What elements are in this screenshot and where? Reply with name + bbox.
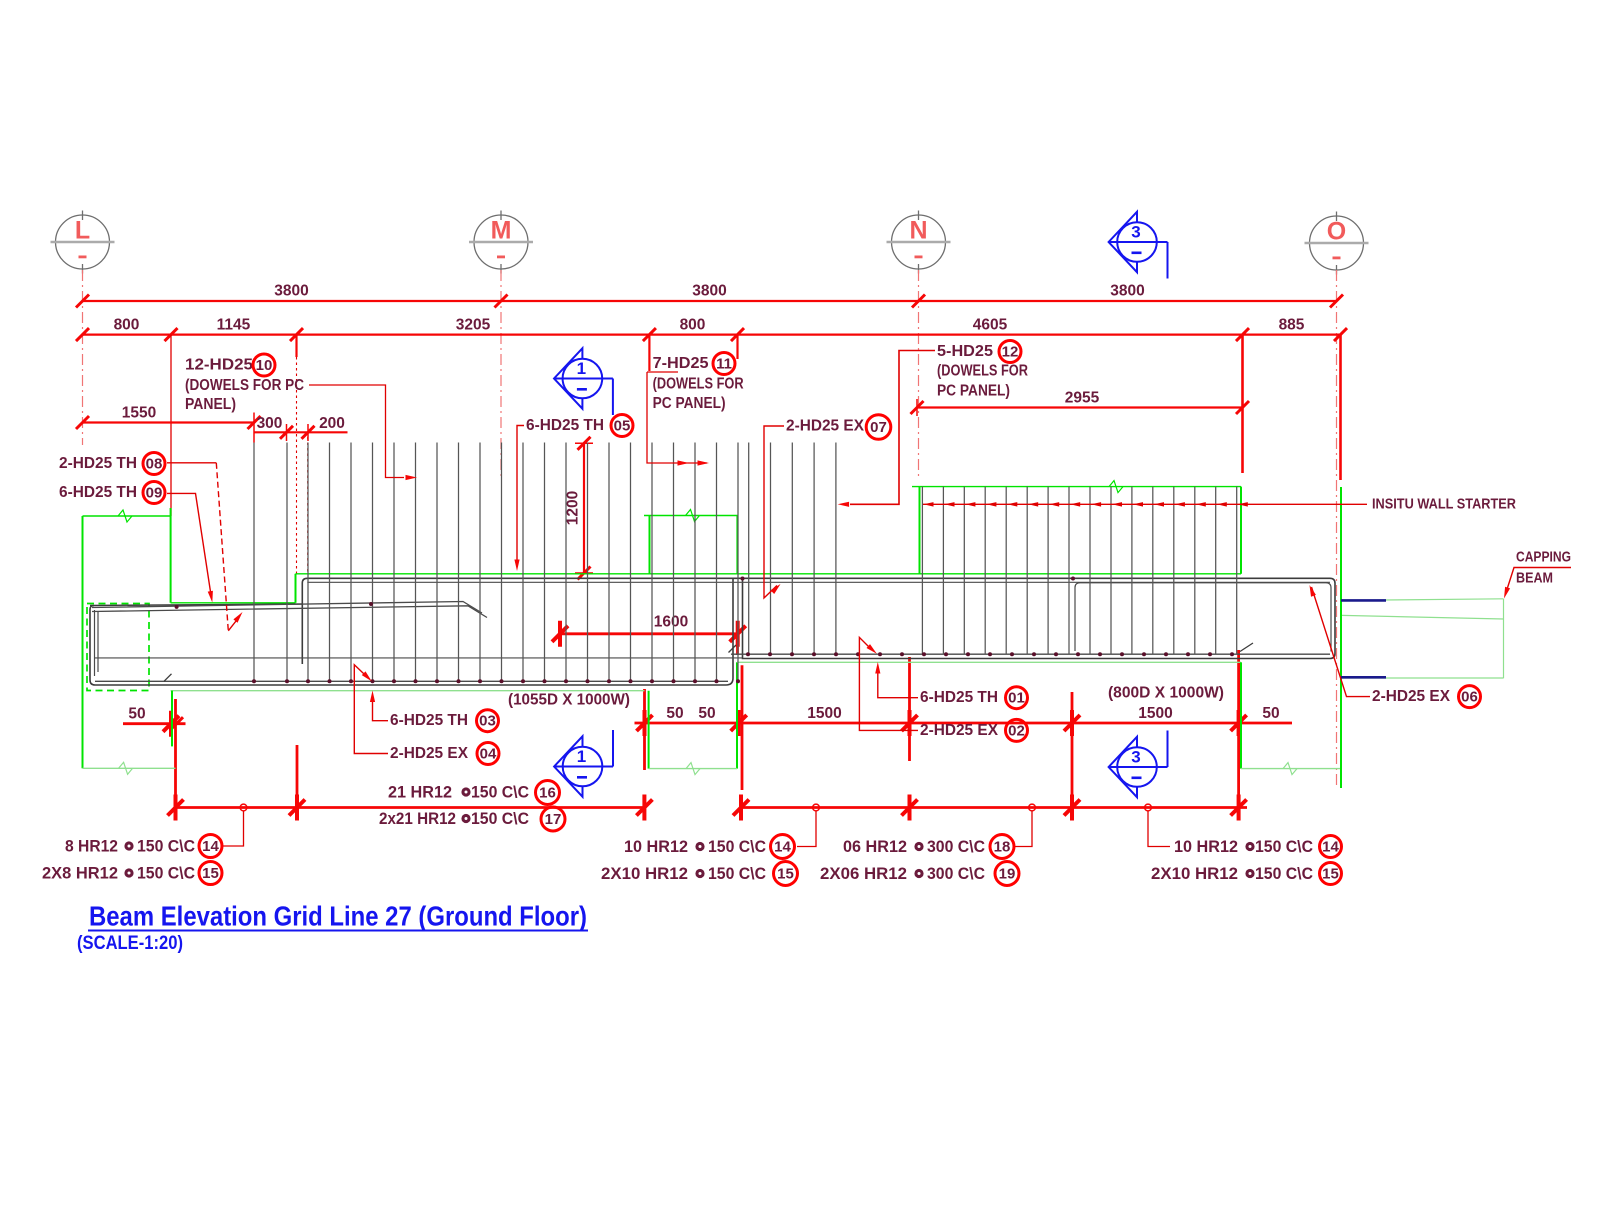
svg-text:2-HD25 EX: 2-HD25 EX — [920, 722, 999, 739]
wall face mid-left — [649, 516, 651, 574]
dowel bars group C (insitu wall starters) — [922, 487, 1236, 655]
extension x=644.5 — [643, 689, 646, 770]
dimension row B: 800/1145/3205/800/4605/885 — [83, 334, 1341, 336]
capping beam second line — [1342, 615, 1504, 619]
leader label 08 (2-HD25 TH) — [167, 462, 216, 464]
svg-text:10 HR12: 10 HR12 — [624, 837, 688, 856]
svg-text:8 HR12: 8 HR12 — [65, 837, 118, 856]
svg-text:07: 07 — [870, 419, 887, 436]
svg-text:150 C\C: 150 C\C — [137, 837, 195, 856]
svg-text:17: 17 — [545, 811, 562, 828]
svg-text:2X10 HR12: 2X10 HR12 — [1151, 864, 1238, 883]
svg-text:01: 01 — [1008, 690, 1025, 707]
inner cage right end — [1075, 583, 1331, 652]
grid line M centreline — [500, 270, 502, 479]
lower mid wall face a — [648, 691, 650, 769]
svg-text:300 C\C: 300 C\C — [927, 837, 985, 856]
extension x=1072 — [1071, 692, 1074, 808]
extension x=1238.6 — [1237, 650, 1240, 808]
wall face right-right — [1240, 487, 1242, 574]
extension line at x=649 — [648, 335, 650, 371]
lower-left wall face continuation — [82, 691, 84, 769]
svg-text:09: 09 — [146, 485, 163, 502]
svg-text:(SCALE-1:20): (SCALE-1:20) — [77, 933, 183, 954]
svg-text:3800: 3800 — [274, 283, 308, 300]
svg-text:3800: 3800 — [692, 283, 726, 300]
leader label 10 (12-HD25 dowels) — [309, 385, 404, 478]
svg-text:12-HD25: 12-HD25 — [185, 357, 253, 374]
dimension row F: 50 50 / 1500 / 1500 / 50 — [635, 722, 1293, 725]
svg-text:3205: 3205 — [456, 317, 491, 334]
section marker 3 at (1137,242) — [1109, 212, 1137, 272]
svg-text:1: 1 — [577, 359, 586, 378]
capping beam rebar navy bottom — [1341, 676, 1386, 679]
svg-text:15: 15 — [1322, 866, 1339, 883]
svg-text:2-HD25 TH: 2-HD25 TH — [59, 455, 137, 472]
svg-text:5-HD25: 5-HD25 — [937, 343, 993, 360]
leader label 02 (2-HD25 EX right) — [859, 637, 918, 730]
svg-text:2x21 HR12: 2x21 HR12 — [379, 809, 456, 828]
through bar at right-beam soffit level — [95, 657, 742, 659]
svg-text:15: 15 — [202, 865, 219, 882]
capping beam rebar navy top — [1341, 599, 1386, 602]
svg-text:19: 19 — [999, 866, 1016, 883]
leader from row G to label 14/15 left — [222, 811, 244, 846]
svg-text:(DOWELS FOR PC: (DOWELS FOR PC — [185, 377, 304, 394]
wall cut line left — [83, 515, 171, 517]
svg-text:05: 05 — [614, 418, 631, 435]
svg-text:3800: 3800 — [1110, 283, 1144, 300]
extension line at x=1340.5 — [1339, 335, 1342, 480]
top rebar second line — [307, 581, 1330, 583]
lower right wall face — [1240, 662, 1242, 768]
beam outline left segment (1055D) — [90, 579, 733, 686]
svg-text:06: 06 — [1461, 689, 1478, 706]
leader capping beam — [1506, 568, 1572, 595]
svg-text:1550: 1550 — [122, 405, 156, 422]
rebar break tick right — [1240, 643, 1253, 652]
wall cut line right — [912, 486, 1241, 488]
svg-text:10 HR12: 10 HR12 — [1174, 837, 1238, 856]
svg-text:50: 50 — [666, 705, 683, 722]
rebar break tick left — [164, 674, 172, 682]
svg-text:3: 3 — [1131, 748, 1140, 767]
svg-text:(1055D X 1000W): (1055D X 1000W) — [508, 692, 630, 709]
capping beam bottom line — [1342, 677, 1504, 679]
insitu wall starter arrow line — [923, 503, 1367, 505]
svg-text:16: 16 — [539, 785, 556, 802]
wall cut line mid — [644, 515, 738, 517]
svg-text:6-HD25 TH: 6-HD25 TH — [920, 689, 998, 706]
extension line at x=1242.5 — [1241, 335, 1244, 473]
leader label 09 (6-HD25 TH) — [167, 493, 211, 597]
svg-text:7-HD25: 7-HD25 — [653, 355, 709, 372]
svg-text:(DOWELS FOR: (DOWELS FOR — [937, 363, 1028, 380]
rebar break tick mid — [729, 645, 737, 653]
svg-text:N: N — [909, 217, 927, 245]
svg-text:O: O — [1327, 218, 1346, 246]
lower right wall cut — [1241, 768, 1340, 770]
svg-text:150 C\C: 150 C\C — [471, 809, 529, 828]
lower mid wall cut — [649, 768, 737, 770]
grid bubble M — [474, 215, 528, 269]
svg-text:(800D X 1000W): (800D X 1000W) — [1108, 685, 1224, 702]
leader label 01 (6-HD25 TH right) — [878, 668, 918, 698]
svg-text:CAPPING: CAPPING — [1516, 549, 1571, 566]
dimension row G left: 21 HR12 stirrup span — [176, 806, 645, 809]
svg-text:BEAM: BEAM — [1516, 570, 1553, 587]
beam outline step and top edge + right end — [302, 578, 1335, 664]
section marker 3 at (1137,767) — [1109, 737, 1137, 797]
svg-text:2-HD25 EX: 2-HD25 EX — [390, 745, 469, 762]
svg-text:14: 14 — [1322, 839, 1339, 856]
lower-left wall: bottom slab line — [171, 690, 645, 692]
leader label 11 (7-HD25 dowels) — [647, 372, 707, 463]
dowel bars group B (7-HD25 zone) — [749, 443, 836, 655]
section marker 1 at (582.4,378.5) — [554, 348, 582, 408]
svg-text:800: 800 — [680, 317, 706, 334]
wall face right-left — [919, 487, 921, 574]
svg-text:PC PANEL): PC PANEL) — [653, 395, 726, 412]
extension x=742 — [741, 665, 744, 790]
grid line O centreline — [1336, 270, 1338, 786]
svg-text:06 HR12: 06 HR12 — [843, 837, 907, 856]
svg-text:150 C\C: 150 C\C — [1255, 837, 1313, 856]
svg-text:2X8 HR12: 2X8 HR12 — [42, 864, 118, 883]
wall face far right — [1340, 487, 1342, 788]
svg-text:2X10 HR12: 2X10 HR12 — [601, 864, 688, 883]
grid bubble O — [1310, 216, 1364, 270]
svg-text:M: M — [491, 217, 512, 245]
extension line at x=171 — [170, 335, 172, 516]
svg-text:1: 1 — [577, 747, 586, 766]
dimension 2955 — [917, 406, 1243, 408]
extension below 1600 tick — [736, 634, 739, 655]
svg-text:04: 04 — [480, 746, 497, 763]
beam outline top left edge — [90, 604, 302, 606]
lower wall cut line — [83, 767, 176, 769]
wall face left outer — [82, 516, 84, 691]
svg-text:300: 300 — [257, 415, 283, 432]
left end hook leg b — [97, 612, 99, 672]
extension x=175.5 — [174, 699, 177, 808]
leader label 05 (6-HD25 TH) — [517, 426, 524, 566]
svg-text:50: 50 — [128, 706, 145, 723]
leader from row G to label 14/15 mid — [797, 811, 816, 847]
leader label 07 (2-HD25 EX) — [764, 426, 784, 598]
lower wall inner face — [171, 691, 173, 747]
leader from row G to label 18/19 — [1014, 811, 1032, 847]
svg-text:1500: 1500 — [1138, 705, 1172, 722]
svg-text:14: 14 — [774, 839, 791, 856]
extension line at x=737.5 — [736, 335, 738, 359]
svg-text:02: 02 — [1008, 722, 1025, 739]
stirrup spacer dots right beam — [741, 577, 1235, 657]
svg-text:PC PANEL): PC PANEL) — [937, 383, 1010, 400]
svg-text:12: 12 — [1002, 344, 1019, 361]
lower mid wall face b — [736, 662, 738, 768]
svg-text:PANEL): PANEL) — [185, 396, 236, 413]
svg-text:11: 11 — [716, 356, 732, 373]
precast panel dashed outline — [87, 604, 149, 691]
svg-text:15: 15 — [777, 866, 794, 883]
svg-text:2955: 2955 — [1065, 390, 1100, 407]
svg-text:6-HD25 TH: 6-HD25 TH — [59, 484, 137, 501]
sloping top bar b — [92, 606, 487, 618]
stirrup spacer dots left beam — [175, 602, 740, 683]
svg-text:1145: 1145 — [217, 317, 251, 334]
dimension 1550 — [83, 421, 255, 423]
dimension row A: 3800 spans — [83, 300, 1337, 302]
dimension row G right — [741, 806, 1247, 809]
sloping top bar a — [92, 602, 482, 614]
svg-text:08: 08 — [146, 456, 163, 473]
capping beam top line — [1341, 599, 1504, 601]
svg-text:10: 10 — [256, 357, 273, 374]
svg-text:800: 800 — [114, 317, 140, 334]
wall face mid-right — [736, 516, 738, 574]
svg-text:150 C\C: 150 C\C — [1255, 864, 1313, 883]
svg-text:150 C\C: 150 C\C — [708, 837, 766, 856]
svg-text:L: L — [75, 217, 90, 245]
svg-text:Beam Elevation Grid Line 27 (G: Beam Elevation Grid Line 27 (Ground Floo… — [89, 901, 587, 932]
beam seat line left — [171, 602, 296, 604]
grid bubble N — [892, 215, 946, 269]
extension x=909.5 — [908, 657, 911, 761]
capping beam right edge — [1503, 599, 1505, 678]
svg-text:3: 3 — [1131, 223, 1140, 242]
svg-text:150 C\C: 150 C\C — [137, 864, 195, 883]
dimension 50 (left) — [123, 722, 186, 725]
svg-text:150 C\C: 150 C\C — [471, 783, 529, 802]
right beam underside line — [737, 661, 1241, 663]
dotted extension at x=308 — [307, 437, 309, 573]
svg-text:4605: 4605 — [973, 317, 1008, 334]
svg-text:03: 03 — [479, 713, 496, 730]
svg-text:150 C\C: 150 C\C — [708, 864, 766, 883]
svg-text:18: 18 — [994, 839, 1011, 856]
dowel bars group A (12-HD25 zone) — [254, 443, 738, 682]
svg-text:INSITU WALL STARTER: INSITU WALL STARTER — [1372, 496, 1516, 513]
dimension 300 and 200 — [254, 431, 348, 433]
svg-text:50: 50 — [698, 705, 715, 722]
dimension 1600 — [560, 632, 738, 635]
left end hook leg a — [94, 610, 96, 676]
extension line at x=296.5 — [295, 335, 297, 357]
leader label 12 (5-HD25 dowels) — [850, 351, 935, 505]
dimension 1200 (vertical) — [583, 443, 585, 573]
svg-text:2X06 HR12: 2X06 HR12 — [820, 864, 907, 883]
svg-text:200: 200 — [319, 415, 345, 432]
svg-text:14: 14 — [202, 838, 219, 855]
grid bubble L — [56, 215, 110, 269]
svg-text:1500: 1500 — [807, 705, 841, 722]
svg-text:50: 50 — [1262, 705, 1279, 722]
svg-text:2-HD25 EX: 2-HD25 EX — [786, 418, 865, 435]
svg-text:1200: 1200 — [565, 491, 582, 525]
svg-text:300 C\C: 300 C\C — [927, 864, 985, 883]
beam top seat line long — [296, 573, 1242, 575]
leader label 03 (6-HD25 TH bottom) — [373, 697, 389, 721]
wall face left inner — [170, 508, 172, 603]
svg-text:1600: 1600 — [654, 614, 688, 631]
svg-text:21 HR12: 21 HR12 — [388, 783, 452, 802]
svg-text:885: 885 — [1279, 317, 1305, 334]
leader from row G to label 14/15 right — [1148, 811, 1170, 847]
section marker 1 at (582.5,766.5) — [554, 736, 582, 796]
svg-text:6-HD25 TH: 6-HD25 TH — [526, 417, 604, 434]
svg-text:(DOWELS FOR: (DOWELS FOR — [653, 376, 744, 393]
wall seat step — [295, 574, 297, 603]
grid line N centreline — [918, 270, 920, 477]
bottom rebar left beam — [95, 680, 728, 682]
grid line L centreline — [82, 270, 84, 445]
bottom rebar right beam — [731, 653, 1330, 655]
leader label 04 (2-HD25 EX bottom) — [354, 665, 388, 754]
svg-text:6-HD25 TH: 6-HD25 TH — [390, 712, 468, 729]
extension x=297 — [296, 745, 299, 808]
leader label 06 (2-HD25 EX far right) — [1312, 587, 1371, 697]
svg-text:2-HD25 EX: 2-HD25 EX — [1372, 688, 1451, 705]
